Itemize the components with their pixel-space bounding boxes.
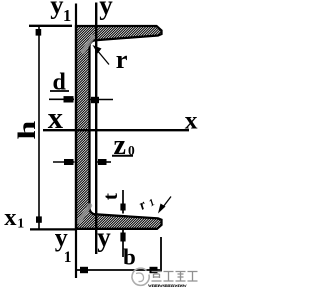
svg-text:h: h <box>12 120 41 139</box>
watermark text big <box>152 272 198 282</box>
b dim right arrowhead <box>150 267 158 273</box>
svg-text:b: b <box>123 244 136 269</box>
svg-text:1: 1 <box>64 249 72 266</box>
svg-text:r: r <box>116 44 128 74</box>
svg-text:wnmwsnmxwnsw: wnmwsnmxwnsw <box>148 283 188 288</box>
svg-text:t: t <box>99 193 122 200</box>
r1 leader arrow <box>162 197 172 210</box>
gray smudge top junction <box>83 37 93 52</box>
t dim upper arrow <box>122 190 124 214</box>
h dim extension top <box>29 25 72 27</box>
svg-text:y: y <box>99 0 113 20</box>
svg-text:x: x <box>48 101 64 135</box>
svg-text:y: y <box>97 222 111 252</box>
h dim line <box>38 26 40 229</box>
svg-text:x: x <box>4 204 17 231</box>
axis y (vertical, centroid) <box>95 3 97 255</box>
svg-text:y: y <box>50 0 63 20</box>
h dim square arrowhead bottom <box>36 216 42 222</box>
h dim square arrowhead top <box>36 29 42 36</box>
b dim line <box>77 269 160 271</box>
r leader arrow <box>97 50 110 65</box>
svg-text:1: 1 <box>17 217 24 232</box>
svg-text:1: 1 <box>63 6 71 25</box>
axis x (horizontal mid) <box>43 129 189 131</box>
channel section outline with hatch fill <box>76 26 162 229</box>
d dim right arrow <box>91 99 114 101</box>
b dim left arrowhead <box>80 267 88 273</box>
svg-text:x: x <box>185 105 198 134</box>
label d underline <box>50 90 69 92</box>
z0 dim left arrow <box>53 161 75 163</box>
d dim left arrow <box>49 98 74 100</box>
axis y1 (vertical, web back) <box>75 4 77 279</box>
label z0 underline <box>112 155 133 157</box>
gray smudge bottom junction <box>79 206 90 222</box>
t dim lower arrow <box>122 230 124 257</box>
b dim right extension line <box>160 237 162 272</box>
svg-text:1: 1 <box>147 197 157 209</box>
svg-text:y: y <box>55 223 68 252</box>
axis x1 (bottom) <box>30 228 76 230</box>
watermark logo circle <box>132 268 149 285</box>
z0 dim right arrow <box>97 161 111 163</box>
